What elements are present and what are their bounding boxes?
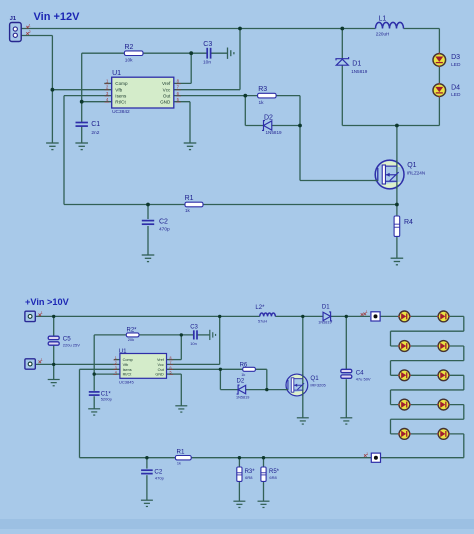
- svg-text:Vcc: Vcc: [157, 363, 163, 367]
- svg-text:470p: 470p: [155, 476, 165, 481]
- svg-text:Vin +12V: Vin +12V: [34, 11, 81, 23]
- svg-text:Out: Out: [158, 368, 165, 372]
- svg-text:D1: D1: [352, 60, 361, 67]
- svg-text:R1: R1: [185, 195, 194, 202]
- svg-text:2n2: 2n2: [91, 130, 99, 136]
- svg-text:1: 1: [366, 452, 368, 456]
- svg-text:+Vin >10V: +Vin >10V: [25, 297, 70, 307]
- svg-text:47u 50V: 47u 50V: [356, 376, 371, 381]
- svg-text:D2: D2: [237, 378, 245, 384]
- svg-text:Comp: Comp: [123, 358, 133, 362]
- svg-text:220uH: 220uH: [376, 31, 390, 36]
- svg-text:R3: R3: [258, 86, 267, 93]
- svg-text:1: 1: [29, 23, 31, 27]
- svg-text:10n: 10n: [190, 341, 197, 346]
- svg-text:Vref: Vref: [157, 358, 165, 362]
- svg-text:Comp: Comp: [115, 81, 128, 86]
- svg-text:R3*: R3*: [245, 469, 256, 475]
- svg-text:1: 1: [41, 358, 43, 362]
- svg-text:Isens: Isens: [123, 368, 132, 372]
- svg-text:6R8: 6R8: [269, 475, 277, 480]
- svg-text:4: 4: [115, 371, 117, 375]
- svg-text:C2: C2: [159, 219, 168, 226]
- svg-text:1k: 1k: [259, 100, 265, 106]
- svg-text:LED: LED: [451, 92, 461, 98]
- svg-text:Vref: Vref: [162, 81, 171, 86]
- svg-text:C1: C1: [91, 121, 100, 128]
- svg-text:20k: 20k: [128, 337, 134, 342]
- svg-text:UC3842: UC3842: [112, 109, 130, 115]
- svg-text:1k: 1k: [177, 461, 181, 465]
- svg-text:2: 2: [29, 30, 31, 34]
- svg-text:R4: R4: [404, 219, 413, 226]
- svg-text:3: 3: [115, 366, 117, 370]
- svg-text:R1: R1: [177, 449, 185, 456]
- svg-text:R6: R6: [240, 362, 248, 368]
- svg-text:1N5819: 1N5819: [351, 69, 368, 74]
- svg-text:7: 7: [170, 361, 172, 365]
- svg-text:Rt/Ct: Rt/Ct: [123, 373, 133, 377]
- svg-text:Q1: Q1: [310, 375, 319, 382]
- svg-text:Out: Out: [163, 93, 171, 98]
- svg-text:10n: 10n: [203, 60, 211, 66]
- svg-text:R2: R2: [125, 44, 134, 51]
- svg-text:C3: C3: [190, 324, 198, 330]
- svg-text:IRF3205: IRF3205: [310, 382, 326, 387]
- svg-text:U1: U1: [112, 70, 121, 77]
- svg-text:5: 5: [170, 371, 172, 375]
- svg-text:1k: 1k: [185, 208, 191, 213]
- svg-text:R5*: R5*: [269, 469, 280, 475]
- svg-text:UC3845: UC3845: [119, 379, 134, 384]
- svg-text:1N5819: 1N5819: [318, 320, 331, 324]
- svg-text:C4: C4: [356, 369, 364, 376]
- svg-text:D4: D4: [451, 85, 460, 92]
- svg-text:L1: L1: [379, 16, 387, 23]
- svg-text:IRLZ24N: IRLZ24N: [407, 171, 425, 176]
- svg-text:6R8: 6R8: [245, 475, 253, 480]
- svg-text:6: 6: [170, 366, 172, 370]
- svg-text:D3: D3: [451, 54, 460, 61]
- svg-text:C3: C3: [203, 41, 212, 48]
- svg-text:Vcc: Vcc: [163, 87, 171, 92]
- svg-text:Q1: Q1: [407, 162, 416, 169]
- svg-text:D2: D2: [264, 115, 273, 122]
- svg-text:Rt/Ct: Rt/Ct: [115, 100, 126, 105]
- svg-text:5200p: 5200p: [101, 396, 113, 401]
- svg-text:1: 1: [115, 356, 117, 360]
- svg-text:J1: J1: [10, 16, 17, 22]
- svg-text:1: 1: [41, 311, 43, 315]
- svg-text:2: 2: [115, 361, 117, 365]
- svg-text:1: 1: [366, 310, 368, 314]
- svg-text:GND: GND: [160, 100, 171, 105]
- svg-text:1k: 1k: [241, 373, 245, 377]
- svg-text:470p: 470p: [159, 227, 170, 233]
- svg-text:D1: D1: [322, 304, 330, 310]
- svg-text:L2*: L2*: [255, 305, 265, 311]
- svg-text:1N5819: 1N5819: [236, 396, 249, 400]
- svg-text:Isens: Isens: [115, 93, 127, 98]
- svg-text:Vfb: Vfb: [123, 363, 129, 367]
- svg-text:Vfb: Vfb: [115, 87, 122, 92]
- svg-text:8: 8: [170, 356, 172, 360]
- svg-text:10k: 10k: [125, 58, 133, 64]
- svg-text:1N5819: 1N5819: [266, 130, 283, 135]
- svg-text:U1: U1: [119, 348, 127, 355]
- svg-text:R2*: R2*: [127, 327, 138, 333]
- svg-text:220u 25V: 220u 25V: [63, 342, 80, 347]
- svg-text:LED: LED: [451, 62, 461, 68]
- svg-text:57uH: 57uH: [258, 320, 267, 324]
- svg-text:GND: GND: [155, 373, 164, 377]
